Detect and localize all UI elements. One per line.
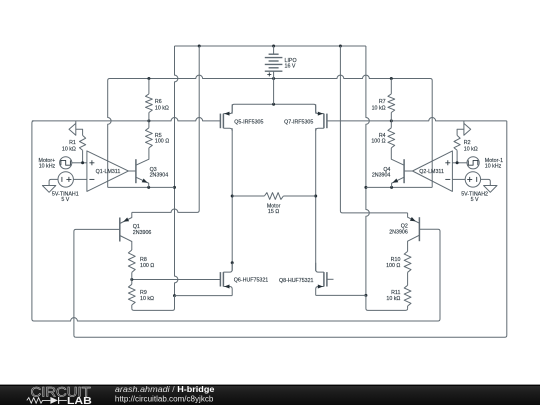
junction dot battery top (273.6,46) [272,45,275,48]
arrow Q6 source (NMOS) [224,285,229,289]
mosfet Q6 source lead [223,287,232,296]
mosfet Q5 drain lead [223,128,232,131]
wire left H-bridge column x=232.2 (Q5 drain to Q6 drain) [231,128,233,271]
svg-text:R1: R1 [69,140,76,146]
resistor R2 lead bottom [456,150,458,163]
svg-text:100 Ω: 100 Ω [386,263,400,269]
svg-text:100 Ω: 100 Ω [140,263,154,269]
resistor R5 zigzag [146,128,153,148]
resistor R6 lead bottom [148,113,150,121]
mosfet Q6 drain lead [223,263,232,272]
wire right H-bridge column x=315.7 (Q7 drain to Q8 drain) [315,128,317,271]
wire left comparator output / gate net y=120.9 [32,118,221,121]
mosfet Q8 source lead [316,287,324,296]
mosfet Q8 drain lead [316,263,324,272]
dc source minus bar [61,177,63,182]
svg-text:10 kΩ: 10 kΩ [372,106,386,112]
wire dc source to - input [73,178,87,180]
mosfet Q5 IRF5305 gate bar [219,114,221,129]
arrow Q5 source (PMOS) [224,112,229,116]
battery V1 LIPO stem top [273,46,275,54]
transistor Q3 2N3904 base bar [135,159,137,183]
junction dot R6/R5 node (148.9,120.9) [147,119,150,122]
mosfet Q7 IRF5305 gate bar [326,114,328,129]
mosfet Q6 channel bar [222,272,224,286]
battery plus sign [267,72,271,76]
motor lead right [283,195,315,197]
junction dot R7/R4 node (391.3,120.9) [390,119,393,122]
wire bottom cross link A y=320.5 [32,121,438,321]
resistor R9 lead bottom [131,305,133,308]
junction dot + input node (457.1,162.8) [456,161,459,164]
junction dot (232.2,262.8) [231,261,234,264]
wire left emitter rail y=187.4 [108,186,175,188]
junction dot motor right (315.7,196) [314,195,317,198]
mosfet Q5 source lead [223,104,232,113]
junction dot (174.5,295.6) [173,294,176,297]
dc source minus bar right [476,177,478,182]
junction dot node N2 (340,46) [339,45,342,48]
battery stem bottom [273,71,275,78]
wire dc source to - input right [452,178,465,180]
dc source 5V-TINAH2 circle [465,172,480,187]
svg-text:Q8-HUF75321: Q8-HUF75321 [279,278,313,284]
transistor Q1 collector [120,236,132,251]
svg-text:http://circuitlab.com/c8yjkcb: http://circuitlab.com/c8yjkcb [115,394,214,403]
wire bottom cross link B y=337.3 [76,121,507,337]
resistor R11 lead bottom [407,306,409,308]
CircuitLab logo resistor zigzag [27,398,51,404]
resistor R8 zigzag [128,250,135,272]
svg-text:100 Ω: 100 Ω [371,139,385,145]
motor lead left [232,195,264,197]
CircuitLab logo diode symbol [50,397,57,404]
svg-text:R2: R2 [464,140,471,146]
wire rail x=199.2 to Q1 emitter wire [132,46,199,212]
transistor Q2 collector [408,235,420,251]
svg-text:2N3904: 2N3904 [372,173,391,179]
junction dot (365.9,187.4) [364,186,367,189]
battery plate short 2 [269,60,279,62]
svg-text:2N3904: 2N3904 [150,173,169,179]
junction dot Q3 emitter (148.7,187.4) [147,186,150,189]
svg-text:10 kHz: 10 kHz [39,164,56,170]
ground arrow right [484,186,497,193]
svg-text:100 Ω: 100 Ω [155,139,169,145]
wire battery positive rail y=78.5 with corners down at x=107.7 and x=432.2 [108,75,433,187]
transistor Q3 collector [136,148,149,165]
resistor R10 zigzag [404,251,411,272]
node flag right (Motor-1 net) [457,121,471,135]
op-amp Q2 minus input glyph [445,178,450,180]
mosfet Q7 source lead [316,104,324,113]
wire battery stem lower [273,79,275,105]
junction dot battery bottom (273.6,78.5) [272,77,275,80]
transistor Q3 emitter [136,177,149,187]
resistor R1 zigzag [80,135,86,150]
junction dot (365.9,295.4) [364,294,367,297]
wire left gate drive y=279.5 (R8/R9 node to Q6 gate) [132,279,221,281]
op-amp Q2 plus input glyph [445,160,450,165]
resistor R9 zigzag [128,284,135,305]
transistor Q4 collector [391,148,404,165]
dc source plus sign [66,177,71,182]
square-wave glyph [61,160,71,165]
svg-text:arash.ahmadi / H-bridge: arash.ahmadi / H-bridge [115,385,215,394]
battery plate long 2 [265,63,283,65]
svg-text:10 kΩ: 10 kΩ [155,106,169,112]
arrow Q4 emitter [392,179,398,183]
arrow Q3 emitter [142,179,148,183]
mosfet Q7 channel bar [323,114,325,129]
wire R9 bottom y=310.4 [132,296,175,311]
svg-text:2N3906: 2N3906 [133,230,152,236]
transistor Q4 2N3904 base bar [403,159,405,183]
op-amp Q1 plus input glyph [89,160,94,165]
arrow Q2 emitter (PNP into base) [410,217,416,221]
transistor Q2 2N3906 base bar [418,217,420,241]
motor resistor zigzag [264,193,283,200]
mosfet Q8 HUF75321 gate bar [326,272,328,286]
svg-text:LAB: LAB [67,396,92,405]
svg-text:15 Ω: 15 Ω [268,209,279,215]
svg-text:Q1-LM311: Q1-LM311 [96,169,121,175]
svg-text:Q2-LM311: Q2-LM311 [419,169,444,175]
battery plate long 3 [265,70,283,72]
resistor R2 zigzag [454,135,460,150]
wire rail x=340.4 to Q2 emitter wire [340,46,407,213]
junction dot R6 top (148.9,78.5) [147,77,150,80]
battery plate long 1 [265,57,283,59]
node flag left (Motor+ net) [69,121,83,135]
resistor R4 zigzag [388,128,395,148]
svg-text:10 kΩ: 10 kΩ [464,147,478,153]
resistor R10 interconnect [407,272,409,285]
svg-text:10 kHz: 10 kHz [485,164,502,170]
square-wave glyph right [468,160,478,165]
wire left base drop x=73.9 [74,229,120,337]
op-amp Q1 minus input glyph [89,178,94,180]
mosfet Q8 channel bar [323,272,325,286]
junction dot R7 top (391.3,78.5) [390,77,393,80]
resistor R4 lead top [390,121,392,128]
arrow Q7 source (PMOS) [318,112,323,116]
wire sqw source to + input right [452,162,467,164]
square-wave source Motor-1 circle [467,157,479,169]
wire Q8 source to ground y=295.4 [316,294,366,296]
ground arrow left [42,186,55,193]
resistor R9 lead top [131,280,133,285]
svg-text:10 kΩ: 10 kΩ [140,296,154,302]
battery plate short 3 [269,67,279,69]
svg-text:Q7-IRF5305: Q7-IRF5305 [284,119,313,125]
resistor R11 zigzag [404,285,411,306]
wire right comparator output / gate net y=120.9 [327,118,507,121]
svg-text:R7: R7 [379,99,386,105]
resistor R7 zigzag [388,94,395,113]
svg-text:10 kΩ: 10 kΩ [62,147,76,153]
svg-text:5 V: 5 V [61,197,69,203]
op-amp Q1-LM311 triangle [87,151,128,192]
transistor Q4 emitter [392,177,405,187]
dc source plus sign right [467,177,472,182]
resistor R1 lead bottom [82,150,84,163]
svg-text:R6: R6 [155,99,162,105]
square-wave source Motor+ circle [60,157,72,169]
svg-text:Q5-IRF5305: Q5-IRF5305 [234,119,263,125]
transistor Q1 emitter [120,212,132,223]
resistor R7 leads [390,79,392,94]
resistor R8 lead bottom [131,272,133,279]
wire R11 bottom y=310.4 [366,295,408,310]
battery plate short 1 [269,53,279,55]
svg-text:2N3906: 2N3906 [389,229,408,235]
mosfet Q7 drain lead [316,128,324,131]
op-amp Q2-LM311 triangle [413,151,453,192]
svg-text:Q6-HUF75321: Q6-HUF75321 [234,278,268,284]
svg-text:5 V: 5 V [471,197,479,203]
wire battery to PMOS sources y=104.3 [232,104,316,113]
wire left rail x=174.5 (ground) from top wire to Q6 source node [175,46,178,296]
transistor Q2 emitter [408,213,420,223]
junction dot (174.5,187.4) [173,186,176,189]
wire Q1 output to Q3 base [128,170,136,172]
footer bar [0,385,540,405]
resistor R6 zigzag [146,94,153,113]
junction dot R8/R9 node (131.8,279.5) [130,278,133,281]
wire dc source to ground right [481,179,491,185]
wire sqw source to + input [72,162,87,164]
arrow Q8 source (NMOS) [318,285,323,289]
resistor R5 lead top [148,121,150,128]
junction dot PMOS source node (273.6,104.3) [272,103,275,106]
svg-text:16 V: 16 V [285,64,296,70]
dc source 5V-TINAH1 circle [58,172,73,187]
junction dot + input node (82.6,162.8) [81,161,84,164]
wire top negative rail y=46 [175,45,366,47]
mosfet Q6 HUF75321 gate bar [219,272,221,286]
resistor R6 leads [148,79,150,94]
wire right rail x=365.9 (ground) from top wire to Q8 source node [366,46,369,295]
transistor Q1 2N3906 base bar [119,218,121,242]
wire right emitter rail y=187.4 [366,186,432,188]
mosfet Q8 gate stub [327,278,334,280]
junction dot node N1 (199,46) [198,45,201,48]
junction dot motor left (232.2,196) [231,195,234,198]
wire Q6 source to ground y=295.6 [175,295,233,297]
svg-text:10 kΩ: 10 kΩ [386,296,400,302]
wire dc source to ground [49,179,58,185]
wire right base drop x=440 [419,229,440,321]
arrow Q1 emitter (PNP into base) [123,218,129,222]
wire Q2 output to Q4 base [404,170,412,172]
mosfet Q5 channel bar [222,114,224,129]
resistor R7 lead bottom [390,113,392,121]
junction dot Q4 emitter (391.6,187.4) [390,186,393,189]
